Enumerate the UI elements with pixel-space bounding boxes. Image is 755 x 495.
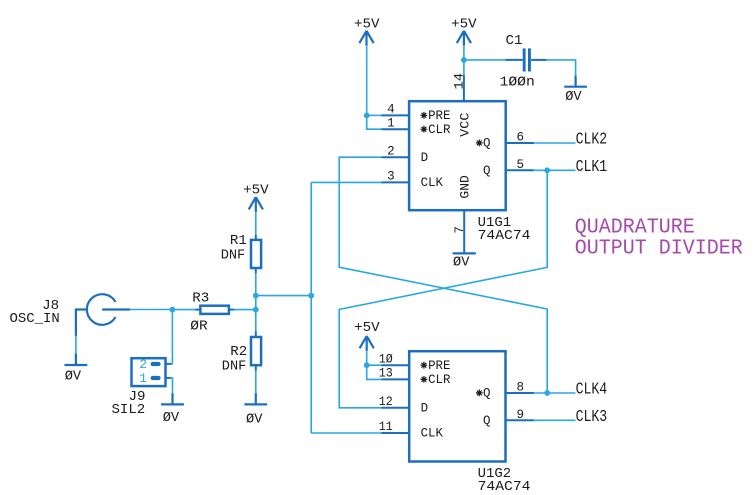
wire J8 shield to ground <box>75 336 77 355</box>
wire J8 pin to node <box>130 309 173 311</box>
connector J8 coax OSC_IN <box>10 294 131 336</box>
pin 6 *Q U1G1 <box>506 131 534 145</box>
junction dot CLK4 branch <box>544 390 550 396</box>
svg-text:PRE: PRE <box>428 359 450 373</box>
pin 9 Q U1G2 <box>506 408 535 422</box>
star of *PRE U1G1 <box>421 112 428 119</box>
svg-text:PRE: PRE <box>428 109 450 123</box>
svg-text:7: 7 <box>453 226 467 234</box>
pin 4 *PRE U1G1 <box>382 103 410 117</box>
power +5V P2 (VCC rail) <box>451 16 477 45</box>
svg-text:DNF: DNF <box>221 248 246 264</box>
svg-text:CLK4: CLK4 <box>576 381 608 400</box>
svg-text:ØV: ØV <box>246 412 263 428</box>
svg-text:13: 13 <box>379 367 393 381</box>
pin 10 *PRE U1G2 <box>379 352 409 366</box>
svg-text:Q: Q <box>483 414 491 428</box>
wire pin 9 to CLK3 <box>534 419 576 421</box>
svg-text:CLK1: CLK1 <box>576 158 608 177</box>
flip-flop U1G2 74AC74 body <box>409 351 530 495</box>
svg-text:CLR: CLR <box>428 373 451 387</box>
svg-text:OSC_IN: OSC_IN <box>10 311 60 327</box>
svg-text:8: 8 <box>516 381 524 395</box>
wire node down to J9 pin 2 <box>170 310 173 364</box>
junction dot column/bus branch <box>253 293 259 299</box>
svg-text:OUTPUT DIVIDER: OUTPUT DIVIDER <box>575 238 743 261</box>
svg-text:3: 3 <box>387 170 395 184</box>
svg-text:12: 12 <box>379 395 393 409</box>
wire R2 bottom to ground <box>255 370 257 394</box>
wire pin 10 branch <box>367 364 382 366</box>
wire column node to vertical bus <box>256 295 311 297</box>
flip-flop U1G1 74AC74 body <box>409 101 530 244</box>
wire pin 5 to CLK1 <box>534 169 576 171</box>
svg-text:1: 1 <box>139 371 147 386</box>
svg-text:ØV: ØV <box>565 89 582 105</box>
svg-text:4: 4 <box>387 103 395 117</box>
wire bus to U1G1 CLK pin 3 <box>311 181 382 183</box>
wire J8 node to R3 left lead <box>172 309 195 311</box>
wire +5V P3 to R1 top <box>255 211 257 235</box>
junction dot column/R3 <box>253 307 259 313</box>
pin 14 VCC U1G1 <box>453 73 467 101</box>
svg-text:14: 14 <box>453 73 467 90</box>
resistor R2 <box>222 332 261 375</box>
svg-text:ØV: ØV <box>163 410 180 426</box>
svg-text:R3: R3 <box>192 291 209 307</box>
wire U1G1 Q pin 5 cross to U1G2 D pin 12 <box>339 170 547 407</box>
wire pin 8 to CLK4 <box>534 392 576 394</box>
svg-text:ØV: ØV <box>65 368 82 384</box>
svg-text:GND: GND <box>458 175 472 198</box>
svg-text:Q: Q <box>483 137 491 151</box>
junction dot CLK1 branch <box>544 167 550 173</box>
resistor R3 <box>190 291 234 335</box>
wire bus to U1G2 CLK pin 11 <box>311 432 382 434</box>
pin 12 D U1G2 <box>379 395 409 409</box>
svg-text:CLK: CLK <box>421 427 444 441</box>
pin 2 D U1G1 <box>382 144 410 158</box>
svg-text:D: D <box>421 402 429 416</box>
svg-text:2: 2 <box>139 357 147 372</box>
svg-text:+5V: +5V <box>451 16 477 32</box>
pin 5 Q U1G1 <box>506 158 534 172</box>
svg-text:SIL2: SIL2 <box>112 402 146 418</box>
svg-text:C1: C1 <box>506 33 523 49</box>
power +5V P1 (rail for pins 4/1) <box>354 16 380 45</box>
svg-text:+5V: +5V <box>243 183 269 199</box>
svg-text:VCC: VCC <box>458 112 472 136</box>
star of *Q U1G1 <box>476 140 483 147</box>
wire +5V P4 to pins 10/13 <box>367 350 382 379</box>
svg-text:9: 9 <box>516 408 524 422</box>
svg-text:1: 1 <box>387 116 395 130</box>
svg-text:DNF: DNF <box>222 359 247 375</box>
wire J9 pin 1 to ground <box>171 378 173 394</box>
star of *CLR U1G1 <box>421 126 428 133</box>
svg-text:ØV: ØV <box>453 255 470 271</box>
svg-text:+5V: +5V <box>354 16 380 32</box>
star of *Q U1G2 <box>476 390 483 397</box>
junction dot VCC/C1 node <box>461 57 467 63</box>
svg-text:74AC74: 74AC74 <box>478 228 531 244</box>
wire R1 bottom to node column <box>255 273 257 332</box>
wire node to C1 left lead <box>464 59 506 61</box>
junction dot rail pins 4/1 <box>364 113 370 119</box>
svg-text:+5V: +5V <box>354 320 380 336</box>
svg-text:QUADRATURE: QUADRATURE <box>575 217 695 240</box>
svg-text:11: 11 <box>379 420 393 434</box>
svg-text:CLK: CLK <box>421 176 444 190</box>
wire vertical bus pin 3 to pin 11 <box>310 182 312 433</box>
star of *CLR U1G2 <box>421 376 428 383</box>
pin 7 GND U1G1 <box>453 210 467 253</box>
wire R3 right lead to column <box>234 309 256 311</box>
ground 0V (J9) <box>161 393 184 426</box>
wire C1 right lead to ground <box>547 60 576 76</box>
wire +5V P2 down to C1 node <box>463 45 465 75</box>
pin 1 *CLR U1G1 <box>382 116 410 130</box>
ground 0V (J8) <box>65 354 88 385</box>
pin 3 CLK U1G1 <box>382 170 410 184</box>
wire U1G1 D pin 2 cross to U1G2 *Q pin 8 <box>339 157 547 393</box>
svg-text:1Ø: 1Ø <box>379 352 393 366</box>
svg-text:Q: Q <box>483 164 491 178</box>
wire pin 6 to CLK2 <box>534 142 576 144</box>
junction dot bus/column branch <box>308 293 314 299</box>
wire +5V P1 to pins 4/1 <box>367 45 382 129</box>
junction dot J8/R3/J9 node <box>170 307 176 313</box>
svg-text:CLK2: CLK2 <box>576 130 608 149</box>
svg-text:Q: Q <box>483 387 491 401</box>
svg-text:6: 6 <box>516 131 524 145</box>
svg-text:2: 2 <box>387 144 395 158</box>
wire pin 4 branch <box>367 114 382 116</box>
svg-text:CLK3: CLK3 <box>576 408 608 427</box>
svg-text:R1: R1 <box>230 233 247 249</box>
svg-text:D: D <box>421 151 429 165</box>
connector J9 SIL2 <box>112 357 172 418</box>
ground 0V (C1) <box>564 76 587 105</box>
resistor R1 <box>221 233 261 274</box>
ground 0V (R2) <box>244 393 267 427</box>
svg-text:CLR: CLR <box>428 123 451 137</box>
star of *PRE U1G2 <box>421 362 428 369</box>
power +5V P3 (above R1) <box>243 183 269 213</box>
capacitor C1 <box>500 33 547 91</box>
power +5V P4 (rail for pins 10/13) <box>354 320 380 351</box>
svg-text:5: 5 <box>516 158 524 172</box>
pin 11 CLK U1G2 <box>379 420 409 434</box>
svg-text:ØR: ØR <box>190 319 208 335</box>
pin 8 *Q U1G2 <box>506 381 535 395</box>
junction dot rail pins 10/13 <box>364 362 370 368</box>
svg-text:1ØØn: 1ØØn <box>500 75 535 91</box>
svg-text:74AC74: 74AC74 <box>478 479 531 495</box>
svg-text:R2: R2 <box>230 344 247 360</box>
ground 0V (pin 7) <box>453 253 476 270</box>
pin 13 *CLR U1G2 <box>379 367 409 381</box>
